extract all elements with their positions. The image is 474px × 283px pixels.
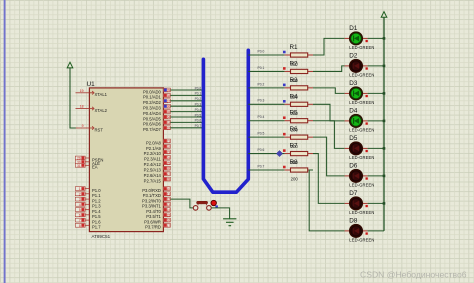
svg-text:XTAL2: XTAL2 (95, 108, 108, 113)
pin 10 P3.0 (142, 187, 170, 193)
node P0.3 logic state indicator (283, 100, 286, 103)
pin 39 P0.0 (143, 88, 170, 94)
svg-text:26: 26 (167, 167, 171, 171)
R5 value 200 (291, 127, 299, 132)
junction D7/rail (383, 202, 386, 205)
pin 37 P0.2 (143, 99, 170, 105)
svg-text:P0.5: P0.5 (258, 132, 265, 136)
pin 5 P1.4 (75, 208, 101, 214)
junction D2/rail (383, 65, 386, 68)
svg-text:LED-GREEN: LED-GREEN (349, 183, 374, 188)
pin 7 P1.6 (75, 218, 101, 224)
svg-text:18: 18 (80, 105, 84, 109)
wire bus tap to R3 (net P0.2) (248, 82, 284, 88)
svg-text:P0.6: P0.6 (258, 148, 265, 152)
junction D3/rail (383, 92, 386, 95)
svg-text:D7: D7 (349, 190, 358, 197)
pin 28 P2.7 (144, 177, 171, 183)
pin 32 P0.7 (143, 126, 170, 132)
resistor R3 (285, 86, 313, 90)
svg-text:P0.3: P0.3 (258, 99, 265, 103)
svg-text:32: 32 (167, 126, 171, 130)
D8 label (349, 218, 358, 225)
svg-text:24: 24 (167, 156, 171, 160)
svg-text:22: 22 (167, 145, 171, 149)
pin 15 P3.5 (146, 213, 170, 219)
R4 label (290, 93, 299, 100)
wire button to ground (211, 208, 229, 219)
R3 value 200 (291, 94, 299, 99)
D8 model label LED-GREEN (349, 238, 374, 243)
svg-text:R1: R1 (290, 44, 299, 51)
svg-text:39: 39 (167, 88, 171, 92)
resistor R7 (285, 151, 313, 155)
svg-text:R8: R8 (290, 159, 299, 166)
pin 38 P0.1 (143, 94, 170, 100)
wire D7 to VCC rail (368, 202, 384, 204)
wire bus tap to R2 (net P0.1) (248, 66, 284, 72)
R2 value 200 (291, 78, 299, 83)
svg-text:P2.6/A14: P2.6/A14 (144, 173, 162, 178)
svg-text:P2.7/A15: P2.7/A15 (144, 178, 162, 183)
svg-text:8: 8 (79, 224, 81, 228)
svg-text:P3.5/T1: P3.5/T1 (146, 214, 161, 219)
wire P0.5 pin to bus (170, 113, 202, 117)
wire R7 to D7 (313, 154, 345, 204)
svg-text:R7: R7 (290, 143, 299, 150)
wire R4 to D4 (313, 104, 345, 121)
svg-text:P0.5: P0.5 (195, 113, 202, 117)
svg-text:13: 13 (167, 203, 171, 207)
junction D6/rail (383, 175, 386, 178)
wire P0.6 pin to bus (170, 119, 202, 123)
pin 36 P0.3 (143, 104, 170, 110)
svg-text:2: 2 (79, 192, 81, 196)
wire P0.7 pin to bus (170, 124, 202, 128)
LED D8 (345, 225, 368, 238)
wire P0.1 pin to bus (170, 92, 202, 96)
svg-text:R5: R5 (290, 110, 299, 117)
pin 30 ALE (75, 160, 100, 166)
svg-text:LED-GREEN: LED-GREEN (349, 128, 374, 133)
D1 model label LED-GREEN (349, 45, 374, 50)
wire power to RST (70, 68, 76, 128)
svg-text:XTAL1: XTAL1 (95, 92, 108, 97)
junction D5/rail (383, 147, 386, 150)
svg-text:P1.1: P1.1 (92, 193, 101, 198)
D6 pin state indicator (366, 177, 368, 179)
node P0.7 logic state indicator (283, 166, 286, 169)
D1 pin state indicator (366, 40, 368, 42)
svg-text:23: 23 (167, 150, 171, 154)
svg-text:P2.3/A11: P2.3/A11 (144, 157, 162, 162)
svg-text:38: 38 (167, 94, 171, 98)
wire bus tap to R5 (net P0.4) (248, 115, 284, 121)
svg-text:12: 12 (167, 198, 171, 202)
R4 value 200 (291, 111, 299, 116)
power symbol VCC rail top (381, 12, 387, 18)
sheet border left edge (4, 0, 6, 283)
wire P0.2 pin to bus (170, 97, 202, 101)
D6 label (349, 163, 358, 170)
D7 pin state indicator (366, 205, 368, 207)
svg-text:R6: R6 (290, 126, 299, 133)
svg-text:LED-GREEN: LED-GREEN (349, 238, 374, 243)
LED D5 (345, 142, 368, 155)
svg-text:4: 4 (79, 203, 81, 207)
pin 22 P2.1 (146, 145, 170, 151)
svg-text:21: 21 (167, 139, 171, 143)
node P0.6 logic state indicator (283, 149, 286, 152)
svg-text:P2.5/A13: P2.5/A13 (144, 168, 162, 173)
svg-text:200: 200 (291, 177, 299, 182)
D3 model label LED-GREEN (349, 100, 374, 105)
svg-text:LED-GREEN: LED-GREEN (349, 73, 374, 78)
D6 model label LED-GREEN (349, 183, 374, 188)
power symbol VCC at RST (67, 62, 73, 68)
pin 3 P1.2 (75, 197, 101, 203)
svg-text:P0.6/AD6: P0.6/AD6 (143, 122, 162, 127)
svg-text:P1.4: P1.4 (92, 209, 101, 214)
wire R2 to D2 (313, 66, 345, 72)
wire D8 to VCC rail (368, 230, 384, 232)
svg-text:D4: D4 (349, 108, 358, 115)
pin 4 P1.3 (75, 202, 101, 208)
pin 9 RST (76, 124, 104, 132)
svg-text:27: 27 (167, 172, 171, 176)
LED D4 (345, 115, 368, 128)
svg-text:U1: U1 (87, 81, 96, 88)
wire D5 to VCC rail (368, 147, 384, 149)
node P0.1 logic state indicator (283, 67, 286, 70)
svg-text:P0.0: P0.0 (195, 86, 202, 90)
D2 pin state indicator (366, 67, 368, 69)
resistor R5 (285, 119, 313, 123)
svg-text:P1.6: P1.6 (92, 219, 101, 224)
svg-text:P0.3/AD3: P0.3/AD3 (143, 106, 162, 111)
svg-text:P3.7/RD: P3.7/RD (145, 225, 161, 230)
svg-text:33: 33 (167, 121, 171, 125)
wire P0.3 pin to bus (170, 103, 202, 107)
pin 2 P1.1 (75, 192, 101, 198)
junction D4/rail (383, 120, 386, 123)
svg-text:P1.3: P1.3 (92, 204, 101, 209)
wire D4 to VCC rail (368, 120, 384, 122)
svg-text:P0.7: P0.7 (258, 164, 265, 168)
pin 31 EA (75, 163, 97, 169)
pin 21 P2.0 (146, 139, 170, 145)
wire bus tap to R6 (net P0.5) (248, 132, 284, 138)
svg-text:P3.1/TXD: P3.1/TXD (143, 193, 161, 198)
D8 pin state indicator (366, 232, 368, 234)
svg-text:D6: D6 (349, 163, 358, 170)
wire VCC rail vertical (383, 17, 385, 231)
R7 label (290, 143, 299, 150)
svg-text:P0.5/AD5: P0.5/AD5 (143, 116, 162, 121)
wire D2 to VCC rail (368, 65, 384, 67)
node P0.4 logic state indicator (283, 116, 286, 119)
svg-text:P0.2: P0.2 (195, 97, 202, 101)
wire R3 to D3 (313, 88, 345, 94)
svg-text:R2: R2 (290, 60, 299, 67)
D4 model label LED-GREEN (349, 128, 374, 133)
resistor R6 (285, 135, 313, 139)
svg-text:P3.2/INT0: P3.2/INT0 (142, 198, 162, 203)
svg-text:6: 6 (79, 213, 81, 217)
svg-text:P0.7/AD7: P0.7/AD7 (143, 127, 162, 132)
svg-text:31: 31 (77, 164, 81, 168)
svg-text:P2.0/A8: P2.0/A8 (146, 140, 162, 145)
pin 1 P1.0 (75, 187, 101, 193)
pin 25 P2.4 (144, 161, 171, 167)
D4 pin state indicator (366, 122, 368, 124)
pin 12 P3.2 (142, 197, 170, 203)
button actuator red dot (211, 200, 216, 205)
svg-text:LED-GREEN: LED-GREEN (349, 100, 374, 105)
LED D7 (345, 197, 368, 210)
svg-text:19: 19 (80, 89, 84, 93)
D2 label (349, 53, 358, 60)
svg-text:5: 5 (79, 208, 81, 212)
svg-text:1: 1 (79, 187, 81, 191)
bus P0 (blue U-shape) (203, 50, 248, 192)
wire P0.4 pin to bus (170, 108, 202, 112)
svg-text:28: 28 (167, 178, 171, 182)
svg-text:P0.4: P0.4 (258, 115, 265, 119)
pin 35 P0.4 (143, 110, 170, 116)
D7 model label LED-GREEN (349, 210, 374, 215)
svg-text:P0.1/AD1: P0.1/AD1 (143, 95, 162, 100)
node P0.5 logic state indicator (283, 133, 286, 136)
D7 label (349, 190, 358, 197)
svg-text:D2: D2 (349, 53, 358, 60)
D5 label (349, 135, 358, 142)
pin 17 P3.7 (145, 223, 170, 229)
LED D6 (345, 170, 368, 183)
svg-text:P2.2/A10: P2.2/A10 (144, 151, 162, 156)
svg-text:P1.2: P1.2 (92, 198, 101, 203)
svg-text:P2.1/A9: P2.1/A9 (146, 146, 162, 151)
svg-text:LED-GREEN: LED-GREEN (349, 45, 374, 50)
svg-text:34: 34 (167, 115, 171, 119)
pin 6 P1.5 (75, 213, 101, 219)
svg-text:17: 17 (167, 224, 171, 228)
svg-text:P0.4: P0.4 (195, 108, 202, 112)
svg-text:36: 36 (167, 105, 171, 109)
svg-text:P0.2: P0.2 (258, 82, 265, 86)
svg-text:P3.4/T0: P3.4/T0 (146, 209, 161, 214)
ground (223, 219, 236, 226)
wire bus tap to R4 (net P0.3) (248, 99, 284, 105)
svg-text:D8: D8 (349, 218, 358, 225)
LED D2 (345, 60, 368, 73)
resistor R1 (285, 53, 313, 57)
watermark (360, 269, 467, 279)
wire R8 to D8 (309, 170, 344, 231)
R3 label (290, 77, 299, 84)
pin 24 P2.3 (144, 155, 170, 161)
node marker diamond on P0.6 wire (276, 150, 282, 156)
R8 label (290, 159, 299, 166)
svg-text:P0.4/AD4: P0.4/AD4 (143, 111, 162, 116)
pin 13 P3.3 (142, 202, 170, 208)
svg-text:D1: D1 (349, 25, 358, 32)
wire bus tap to R7 (net P0.6) (248, 148, 284, 154)
svg-text:9: 9 (82, 124, 84, 128)
R5 label (290, 110, 299, 117)
svg-text:16: 16 (167, 219, 171, 223)
pin 8 P1.7 (75, 223, 101, 229)
svg-text:D5: D5 (349, 135, 358, 142)
svg-text:37: 37 (167, 99, 171, 103)
D3 label (349, 80, 358, 87)
junction D1/rail (383, 37, 386, 40)
node P3.2 state indicator (215, 205, 218, 208)
svg-text:P0.1: P0.1 (258, 66, 265, 70)
D5 pin state indicator (366, 150, 368, 152)
wire R6 to D6 (313, 137, 345, 176)
resistor R2 (285, 69, 313, 73)
node P0.2 logic state indicator (283, 84, 286, 87)
D4 label (349, 108, 358, 115)
pin 29 PSEN (75, 156, 103, 162)
pin 14 P3.4 (146, 208, 170, 214)
svg-text:P3.3/INT1: P3.3/INT1 (142, 204, 162, 209)
svg-text:P3.6/WR: P3.6/WR (144, 219, 161, 224)
wire R1 to D1 (313, 38, 345, 55)
svg-text:14: 14 (167, 208, 171, 212)
svg-text:R4: R4 (290, 93, 299, 100)
svg-text:EA: EA (92, 165, 98, 170)
D3 pin state indicator (366, 95, 368, 97)
R8 value 200 (291, 177, 299, 182)
svg-text:P0.3: P0.3 (195, 103, 202, 107)
R1 label (290, 44, 299, 51)
R7 value 200 (291, 160, 299, 165)
wire R5 to D5 (313, 121, 345, 149)
pin 34 P0.5 (143, 115, 170, 121)
pin 33 P0.6 (143, 121, 170, 127)
pin 18 XTAL2 (76, 105, 108, 113)
svg-text:P0.2/AD2: P0.2/AD2 (143, 100, 162, 105)
svg-text:15: 15 (167, 213, 171, 217)
resistor R4 (285, 102, 313, 106)
D2 model label LED-GREEN (349, 73, 374, 78)
wire bus tap to R8 (net P0.7) (248, 164, 284, 170)
svg-text:LED-GREEN: LED-GREEN (349, 210, 374, 215)
svg-text:35: 35 (167, 110, 171, 114)
R1 value 200 (291, 62, 299, 67)
svg-text:10: 10 (167, 187, 171, 191)
svg-text:P0.0: P0.0 (258, 49, 265, 53)
wire P3.2 pin to button (170, 199, 193, 208)
node P0.0 logic state indicator (283, 51, 286, 54)
pin 16 P3.6 (144, 218, 170, 224)
svg-text:LED-GREEN: LED-GREEN (349, 155, 374, 160)
svg-text:P1.7: P1.7 (92, 225, 101, 230)
svg-text:D3: D3 (349, 80, 358, 87)
svg-text:AT89C51: AT89C51 (92, 234, 111, 239)
pin 11 P3.1 (143, 192, 171, 198)
pin 23 P2.2 (144, 150, 171, 156)
svg-text:CSDN @Небодиночество6: CSDN @Небодиночество6 (360, 269, 467, 279)
R2 label (290, 60, 299, 67)
svg-text:R3: R3 (290, 77, 299, 84)
wire bus tap to R1 (net P0.0) (248, 49, 284, 55)
svg-text:P0.6: P0.6 (195, 119, 202, 123)
svg-text:P0.0/AD0: P0.0/AD0 (143, 89, 162, 94)
IC U1 (AT89C51 microcontroller) body (89, 88, 163, 232)
svg-text:P1.0: P1.0 (92, 188, 101, 193)
D1 label (349, 25, 358, 32)
LED D1 (345, 32, 368, 45)
pin 26 P2.5 (144, 166, 171, 172)
svg-text:11: 11 (167, 192, 171, 196)
pin 27 P2.6 (144, 172, 171, 178)
svg-text:7: 7 (79, 219, 81, 223)
wire D1 to VCC rail (368, 37, 384, 39)
wire D3 to VCC rail (368, 92, 384, 94)
wire D6 to VCC rail (368, 175, 384, 177)
LED D3 (345, 87, 368, 100)
R6 value 200 (291, 144, 299, 149)
svg-text:P1.5: P1.5 (92, 214, 101, 219)
svg-text:P0.7: P0.7 (195, 124, 202, 128)
AT89C51 value label (92, 234, 111, 239)
U1 reference label (87, 81, 96, 88)
svg-text:P2.4/A12: P2.4/A12 (144, 162, 162, 167)
resistor R8 (285, 168, 313, 172)
D5 model label LED-GREEN (349, 155, 374, 160)
R6 label (290, 126, 299, 133)
svg-text:P0.1: P0.1 (195, 92, 202, 96)
svg-text:3: 3 (79, 198, 81, 202)
push button (switch) (193, 201, 211, 210)
pin 19 XTAL1 (76, 89, 108, 97)
wire P0.0 pin to bus (170, 86, 202, 90)
svg-text:25: 25 (167, 161, 171, 165)
svg-text:P3.0/RXD: P3.0/RXD (142, 188, 161, 193)
svg-text:RST: RST (95, 127, 104, 132)
